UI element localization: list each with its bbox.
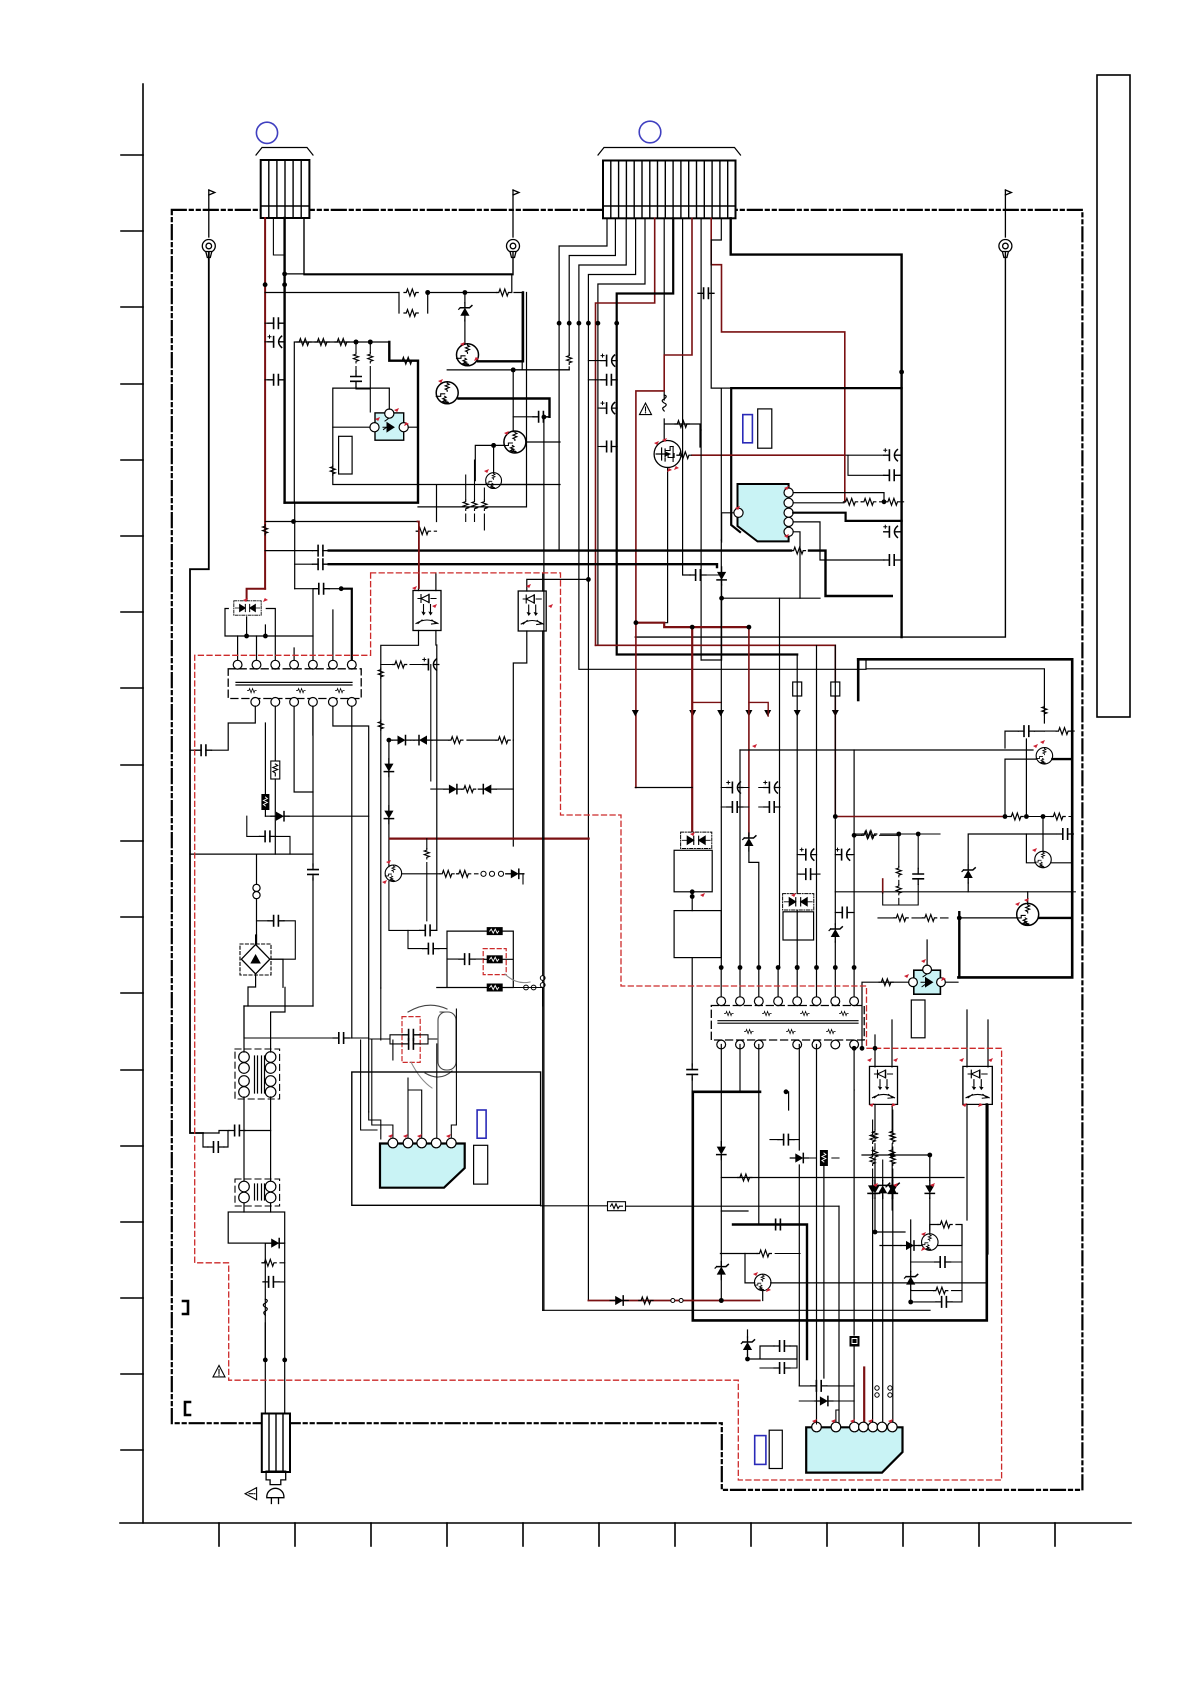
diode D v799 <box>790 1153 808 1162</box>
maroon branch 2 <box>748 627 750 836</box>
wire link 664 <box>381 665 439 782</box>
fuse block FB1 <box>487 927 503 935</box>
wire Q8 collector <box>1027 892 1029 904</box>
wire mid rail 637 <box>701 540 721 660</box>
wire inner 1310 <box>543 1309 930 1311</box>
wire Q2 emitter bus thick <box>459 399 550 417</box>
resistor R m3 <box>862 832 876 839</box>
wire node down p10 <box>700 430 702 660</box>
diode D o1 <box>610 1296 628 1305</box>
ground lug E1 <box>202 190 215 258</box>
ground lug E3 <box>999 190 1012 258</box>
choke CM1 <box>235 1179 280 1206</box>
wire Q3 emitter right <box>526 441 560 443</box>
resistor R rg2 vertical <box>896 884 901 894</box>
verticals to IC3 <box>789 1045 893 1425</box>
wire mosfet to resistor <box>677 454 681 456</box>
wire v2 long <box>312 706 314 1006</box>
IC2 controller cyan <box>380 1144 465 1188</box>
fusible F live2 <box>264 723 266 795</box>
wire x5 <box>244 1006 369 1038</box>
box ctrl thick <box>285 342 418 503</box>
capacitor C x4 <box>459 954 475 964</box>
stair wire b6 thick <box>617 218 798 654</box>
wire h chain down <box>265 1243 284 1360</box>
wire C g1 <box>911 1261 962 1263</box>
wire cap to Q3 <box>513 416 533 418</box>
resistor R e2 vertical <box>472 500 477 510</box>
wire PC3 legs <box>513 573 588 1310</box>
maroon branch taps <box>692 702 768 716</box>
wire CN2 p9 maroon <box>636 218 692 787</box>
CN1 circle label <box>256 122 277 143</box>
zener D zd <box>459 303 472 321</box>
capacitor C b2 <box>601 375 617 385</box>
capacitor C m3 <box>727 802 743 812</box>
side note bar top right <box>1097 75 1130 717</box>
wire col tops <box>873 1110 893 1180</box>
connector CN2 <box>598 148 741 219</box>
capacitor C l664 polar <box>423 658 439 670</box>
wire CN2 p13 thick <box>731 218 902 637</box>
wire q7 net <box>1025 739 1027 817</box>
capacitor C x3 <box>423 943 439 953</box>
wire DD2 down <box>691 892 693 911</box>
blue label rect <box>743 415 753 443</box>
wire C rb <box>1005 731 1044 748</box>
wire pri cap <box>329 588 341 590</box>
red dashed main loop <box>195 573 1002 1480</box>
thick elbow mid <box>733 1225 807 1360</box>
fuse block F v799 <box>820 1150 828 1166</box>
AC plug <box>266 1471 286 1503</box>
resistor R hang vertical <box>424 849 429 859</box>
capacitor C snub2 <box>687 1064 697 1080</box>
wire v835 lower <box>834 816 836 968</box>
resistor pair parallel <box>399 289 430 316</box>
wire Q10 nets <box>745 1254 987 1301</box>
photocoupler PC4 cyan <box>909 965 946 994</box>
wire Q2 base rail <box>447 370 569 432</box>
capacitor C mm2 <box>774 1341 790 1351</box>
capacitor C s1 <box>351 371 361 387</box>
box IC2 thick <box>352 1072 541 1205</box>
border left ruler line <box>142 84 144 1523</box>
warning triangle near plug <box>245 1488 257 1500</box>
resistor R q5a <box>440 870 454 877</box>
wire fuse out beads <box>513 988 542 1007</box>
wire q9 base <box>880 1245 922 1247</box>
wire bridge top <box>255 935 257 944</box>
wire 388 link <box>721 387 731 389</box>
label rect inside box <box>339 436 353 474</box>
wire Q7 leads <box>1026 817 1072 863</box>
wire caps between rails <box>265 323 285 380</box>
resistor R rd <box>863 831 877 838</box>
resistor R or2 <box>496 737 510 744</box>
junction dots CN1 feeds <box>263 282 268 287</box>
capacitor C h1 <box>229 1125 245 1135</box>
wire IC1 pin2 resistor row <box>793 502 844 504</box>
wire DD3 down <box>796 940 798 968</box>
white label rect g <box>911 1000 925 1038</box>
capacitor C sn1 <box>403 1030 419 1040</box>
leader curve red box <box>505 974 530 983</box>
capacitor C mm3 <box>774 1363 790 1373</box>
wire Q5 emitter down <box>389 882 420 931</box>
wire diode ORing line <box>389 740 513 846</box>
wire mosfet source down <box>664 468 667 623</box>
resistor R rc <box>1056 728 1070 735</box>
ferrite beads <box>481 871 486 876</box>
wire diode rails down <box>875 1155 930 1232</box>
diode D q9 <box>901 1241 919 1250</box>
IC1 regulator cyan <box>738 484 789 541</box>
maroon thick link <box>636 623 692 833</box>
capacitor C rq <box>1057 829 1073 839</box>
wire row 1155 <box>862 1154 930 1156</box>
dual diode DD3 <box>783 894 814 910</box>
capacitor C v2m <box>308 864 318 880</box>
ground lug E2 <box>507 190 520 258</box>
capacitor C ac <box>196 745 212 755</box>
resistor R mid <box>757 1250 771 1257</box>
photocoupler PC1 <box>370 409 408 440</box>
wire Q3 base <box>475 445 504 480</box>
wire 1253 cont <box>775 1253 800 1255</box>
capacitor C mm1 <box>770 1219 786 1229</box>
diode D or1 <box>393 736 411 745</box>
capacitor C r1 polar <box>884 449 900 461</box>
wire D b1 <box>799 1400 854 1402</box>
zener D r1 <box>962 865 975 883</box>
wire opto leads <box>333 389 418 427</box>
resistor R q9 <box>938 1221 952 1228</box>
wire 668 inner <box>866 659 1044 723</box>
wires to IC2 pins staircase <box>369 988 393 1139</box>
diode D g1 <box>870 1180 879 1198</box>
wire caps feeder <box>294 503 296 589</box>
stair wire b5 <box>598 218 645 645</box>
IC2 pins <box>388 1138 398 1148</box>
capacitor C x5 <box>333 1033 349 1043</box>
inductor L m <box>662 395 666 411</box>
transistor Q8 <box>1017 903 1039 925</box>
bottom ruler ticks <box>219 1523 1055 1546</box>
resistor R bus <box>791 547 805 554</box>
resistor R pc2b vertical <box>378 720 383 730</box>
wire long v544 <box>544 417 550 1310</box>
resistor R l664 <box>393 661 407 668</box>
capacitor C in1 <box>268 318 284 328</box>
photocoupler PC2 <box>413 591 441 631</box>
wire x3 <box>408 930 447 948</box>
resistor R f1 <box>843 498 857 505</box>
capacitor C bus1 <box>313 545 329 555</box>
resistor pairs col <box>870 1133 875 1143</box>
wire Q6 emitter thick <box>1052 758 1072 760</box>
resistor R h <box>262 1259 276 1266</box>
wire p8 cap tail <box>706 574 722 576</box>
wire CN2 p12 <box>711 218 721 388</box>
fuse block FB2 in red box <box>487 955 503 963</box>
wires caps to bus <box>588 361 617 447</box>
wire CN1 pin stub <box>273 218 283 255</box>
wire CN1 live (maroon) <box>264 218 266 589</box>
resistor R g1a vertical <box>872 1130 877 1140</box>
wire caps r to bus <box>846 455 902 560</box>
wire top rail <box>285 274 512 293</box>
wire vert v816 <box>816 646 818 855</box>
leader sn <box>411 1062 432 1088</box>
wire Q5 row <box>402 873 479 875</box>
wire bus caps left <box>265 551 313 589</box>
wire rg net <box>883 834 919 905</box>
IC1 pins <box>784 488 793 497</box>
main block box <box>731 388 901 532</box>
wire link 891 <box>835 891 1075 893</box>
wire vert v721 <box>720 598 722 967</box>
resistor R s5 vertical <box>368 353 373 363</box>
wire vert v740 <box>739 750 741 968</box>
resistor R e3 vertical <box>482 500 487 510</box>
resistor R v vertical <box>330 465 335 475</box>
wires resistors drop <box>466 460 485 530</box>
wire x2b <box>436 929 437 931</box>
white label rect <box>758 409 772 448</box>
wire thick bottom box <box>693 1092 987 1321</box>
transistor Q9 <box>922 1234 939 1251</box>
resistor R rg1 vertical <box>896 866 901 876</box>
wire vert v779 <box>779 598 781 967</box>
wire snub2 down <box>691 958 693 1092</box>
wire vert v758 diode branch <box>749 836 759 968</box>
box h lower <box>228 1212 285 1243</box>
box standby outline <box>294 342 389 503</box>
wire t <box>416 530 436 532</box>
resistor R s1 <box>297 339 311 346</box>
wire x4 <box>447 958 484 960</box>
stair wire b2 <box>569 218 615 355</box>
capacitor C x2 <box>420 925 436 935</box>
wire Q6 base <box>1005 759 1036 816</box>
wire PC6 top leads <box>967 1010 988 1067</box>
fuse block FM1 <box>793 682 802 696</box>
resistor R q5b <box>457 870 471 877</box>
wire D g4 <box>910 1220 912 1302</box>
resistor R rm1 <box>1009 813 1023 820</box>
wire mm3 <box>760 1359 797 1368</box>
capacitor C b1 <box>811 1381 827 1391</box>
wire C v <box>770 1139 799 1141</box>
junction dots extra <box>282 272 1045 1362</box>
photocoupler PC3 <box>518 591 546 631</box>
wire CN1 neutral thick <box>283 218 285 503</box>
capacitor C rg <box>913 868 923 884</box>
wire b2 tail <box>513 367 569 370</box>
diode row 789 <box>431 788 514 790</box>
wire zener to Q1 <box>464 293 466 344</box>
connector CN1 <box>256 148 313 219</box>
capacitor C ac2 <box>260 831 276 841</box>
wire maroon to dual diode <box>247 589 266 600</box>
wire v721 bottom <box>720 1045 722 1301</box>
capacitor C rb <box>1018 726 1034 736</box>
wire re rf <box>878 917 948 919</box>
wire cap to left rail <box>190 749 196 751</box>
wire to connector <box>265 1323 284 1414</box>
bracket mark 2 <box>185 1402 190 1415</box>
maroon rail right <box>836 816 1005 818</box>
wire node down p12 <box>720 388 722 540</box>
resistor R s2 <box>315 339 329 346</box>
stair wire b5r maroon <box>596 218 655 645</box>
resistor R b2 vertical <box>567 354 572 364</box>
stair wire b4 <box>588 218 635 1300</box>
wire PC5 top leads <box>875 1020 892 1067</box>
wire box top left drop <box>857 659 860 700</box>
resistor R g1b vertical <box>872 1148 877 1158</box>
wire R rd <box>854 833 940 835</box>
wire lug E1 down <box>190 252 209 1133</box>
resistor R pc4 <box>879 979 893 986</box>
diode D p <box>717 567 726 585</box>
wire IC1 left pin <box>722 513 734 542</box>
warning triangle ac <box>213 1365 225 1377</box>
photocoupler PC5 box <box>870 1066 898 1104</box>
white label rect g2 <box>769 1430 782 1468</box>
junction dots ac <box>263 1358 268 1363</box>
resistor R f2 <box>862 498 876 505</box>
resistor R re <box>923 915 937 922</box>
wire C b1 <box>799 1383 854 1386</box>
capacitor C m1 polar <box>727 781 743 793</box>
diode D or2 <box>414 736 432 745</box>
wire mm net <box>748 1330 798 1359</box>
wire vert v854 <box>853 750 855 968</box>
stair wire b3 <box>579 218 866 669</box>
wire h caps <box>203 1131 271 1148</box>
transistor Q10 <box>754 1274 771 1291</box>
red pin marks <box>243 342 1045 1423</box>
wire rm row <box>1006 816 1073 818</box>
zener D mid2 <box>715 1262 728 1280</box>
capacitor C h3 <box>263 1277 279 1287</box>
arrow marks row <box>632 710 839 717</box>
wire left rail taps <box>190 853 313 855</box>
wire PC4 leads <box>880 940 958 982</box>
resistor R e1 vertical <box>463 500 468 510</box>
photocoupler PC6 box <box>963 1066 992 1104</box>
wire m caps <box>721 788 780 808</box>
capacitor C g2 <box>936 1297 952 1307</box>
wire live2 tail <box>264 809 266 816</box>
capacitor C r3 polar <box>884 525 900 537</box>
wire lug E2 to CN1 pin <box>304 218 513 275</box>
diode D h <box>266 1239 284 1248</box>
maroon rail into regulator <box>692 454 845 456</box>
wire res mid <box>875 1144 892 1149</box>
wire T1 top pins stubs <box>238 589 333 660</box>
capacitor C bus2 <box>313 559 329 569</box>
sub box around opto <box>333 388 418 484</box>
transistor Q4 <box>486 473 502 489</box>
capacitor C p10 <box>698 288 714 298</box>
resistor R g2a vertical <box>890 1130 895 1140</box>
wire v follower <box>388 740 390 867</box>
capacitor C sn2 <box>403 1039 419 1049</box>
diode D m1 <box>743 833 756 851</box>
wire 1158 link <box>808 1157 839 1159</box>
wire Q4 emitter <box>501 484 560 486</box>
wire Q8 base <box>959 918 1016 978</box>
capacitor C q <box>533 412 549 422</box>
beads o <box>671 1299 675 1303</box>
wire IC1 pin4 <box>793 522 884 560</box>
wire x1 <box>257 921 296 959</box>
wire fuse net <box>437 931 514 987</box>
wire f row <box>861 501 904 503</box>
loop capsule annotation <box>438 1012 456 1070</box>
capacitor C pri <box>313 584 329 594</box>
wire res chain junctions <box>354 340 359 345</box>
transistor Q7 <box>1035 851 1052 868</box>
wire pc4 left <box>862 982 879 1048</box>
capacitor C b3 polar <box>601 402 617 414</box>
wire Q1 emitter bus thick <box>478 293 523 362</box>
wire 1253 row <box>720 1253 757 1255</box>
diode D b1 <box>815 1396 833 1405</box>
transistor Q6 <box>1036 748 1053 765</box>
resistor R top <box>497 289 511 296</box>
wire s-net <box>356 342 370 412</box>
jumper beads bottom verticals <box>875 1386 879 1390</box>
fusible line 1206 <box>541 1205 607 1207</box>
diode D g4 <box>905 1272 918 1290</box>
transistor Q1 <box>457 344 479 366</box>
junction dots row <box>719 965 724 970</box>
wire FM stubs <box>797 645 835 940</box>
diode D v2 <box>384 806 393 824</box>
wire IC1 pin1 <box>793 493 884 502</box>
capacitor C p8 <box>690 570 706 580</box>
wire y521 rail <box>265 521 417 523</box>
wire q10 area <box>721 1045 759 1225</box>
wire CN2 p7 mosfet drain <box>663 218 665 400</box>
wire T1 sec pin2 fusible <box>274 706 276 761</box>
fusible resistor FR1 <box>271 761 280 779</box>
resistor R o1 <box>639 1297 653 1304</box>
junction diode out <box>719 596 724 601</box>
warning triangle m <box>640 403 652 415</box>
fuse block FB3 <box>487 984 503 992</box>
wire thick stub 959 <box>958 912 960 977</box>
connector AC bottom <box>262 1414 290 1473</box>
wire PC2 leads <box>381 573 437 988</box>
box snub2 <box>674 911 721 958</box>
junction zener <box>719 1298 724 1303</box>
dual diode DD1 <box>234 601 261 615</box>
box DD3 <box>783 912 814 940</box>
diode D g3 <box>925 1180 934 1198</box>
wire link 787 <box>635 787 692 789</box>
wire choke taps <box>244 987 285 1212</box>
wire T1 sec pin1 to AC cap <box>212 706 256 750</box>
diodes col 872-892 <box>868 1180 877 1198</box>
resistor R 1177 <box>738 1174 752 1181</box>
wire DD1 sides <box>225 609 313 637</box>
zener D mm <box>741 1337 754 1355</box>
